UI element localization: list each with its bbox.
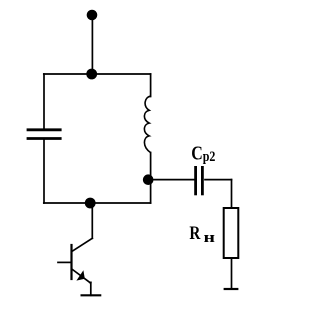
base lead: [58, 261, 72, 263]
emitter arrow: [76, 270, 84, 280]
node junction top: [86, 69, 97, 80]
collector lead: [72, 238, 93, 251]
transistor Q1: [58, 238, 92, 282]
wire bottom horizontal: [44, 202, 151, 204]
svg-text:Cp2: Cp2: [191, 142, 215, 165]
wire left lower vertical: [43, 139, 45, 203]
label Rн: [189, 222, 200, 243]
resistor Rн: [224, 208, 239, 258]
svg-text:н: н: [204, 228, 215, 245]
ground right: [224, 288, 239, 290]
wire collector vertical: [91, 203, 93, 238]
svg-text:R: R: [189, 222, 200, 243]
wire right vertical above coil: [150, 74, 152, 97]
capacitor Cp2 plates: [196, 166, 203, 195]
wire emitter to ground: [90, 282, 91, 295]
base bar: [70, 245, 72, 279]
ground left: [81, 294, 102, 296]
wire corner down to resistor: [231, 180, 233, 207]
wire right vertical below coil: [150, 153, 152, 204]
node top: [87, 10, 98, 21]
emitter lead: [72, 269, 90, 282]
wire left upper vertical: [43, 74, 45, 129]
node junction right: [143, 174, 154, 185]
wire branch to Cp2: [151, 179, 194, 181]
wire resistor to ground: [231, 259, 233, 289]
node junction bottom: [85, 198, 96, 209]
wire top horizontal: [44, 73, 151, 75]
label Cp2: [191, 142, 215, 165]
capacitor C1 plates: [27, 130, 62, 139]
wire top vertical: [91, 15, 93, 74]
inductor L1: [144, 96, 150, 152]
wire Cp2 to corner: [205, 179, 232, 181]
